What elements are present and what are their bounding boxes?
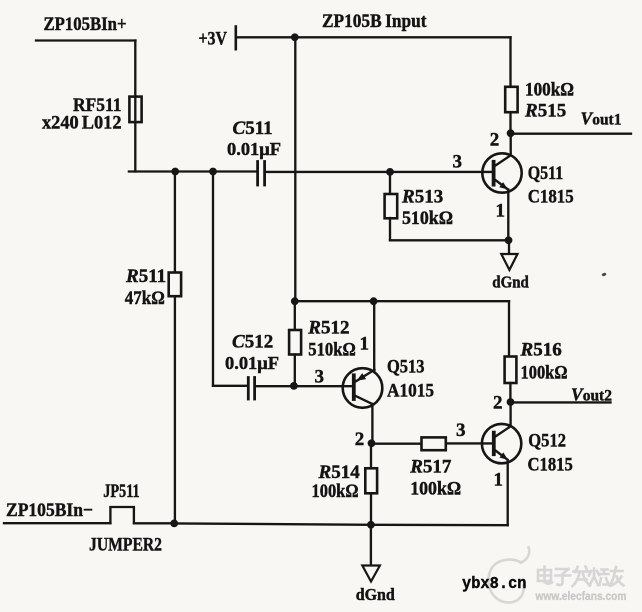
wire R517 to Q512 base [446, 442, 493, 444]
transistor Q512 base bar [492, 433, 496, 455]
wire Q511 emitter lead [507, 190, 509, 241]
transistor Q512 emitter arrow [500, 452, 508, 459]
svg-text:Vout1: Vout1 [581, 109, 622, 129]
transistor Q513 emitter diagonal [354, 370, 374, 383]
wire ZP105BIn+ vertical into RF511 [134, 41, 136, 172]
svg-text:Q513: Q513 [387, 356, 425, 377]
resistor R511 bottom lead [174, 296, 176, 523]
wire R516 bottom lead [509, 383, 511, 402]
transistor Q511 base bar [492, 162, 496, 185]
svg-text:C1815: C1815 [528, 454, 573, 475]
wire dGnd1 stub [508, 240, 510, 254]
wire C512 left lead [213, 385, 247, 387]
junction dot bottom rail R514 [367, 521, 375, 529]
wire node2 to R517 [372, 443, 422, 445]
wire Q512 emitter lead [507, 460, 509, 525]
wire dGnd2 stub [370, 525, 372, 566]
svg-text:ZP105BIn+: ZP105BIn+ [44, 14, 127, 35]
svg-text:dGnd: dGnd [356, 585, 396, 604]
svg-text:0.01μF: 0.01μF [225, 353, 279, 373]
svg-text:Vout2: Vout2 [571, 385, 612, 405]
svg-text:2: 2 [355, 429, 365, 450]
svg-text:Q511: Q511 [528, 163, 564, 184]
svg-text:R511: R511 [125, 266, 166, 287]
svg-text:R516: R516 [520, 339, 562, 360]
svg-text:ZP105BIn−: ZP105BIn− [6, 500, 93, 521]
svg-text:JUMPER2: JUMPER2 [89, 534, 162, 555]
transistor Q511 collector diagonal [494, 155, 511, 166]
svg-text:100kΩ: 100kΩ [312, 481, 359, 502]
svg-text:ybx8.cn: ybx8.cn [462, 574, 527, 593]
svg-text:0.01μF: 0.01μF [227, 139, 281, 159]
svg-text:C512: C512 [232, 331, 273, 352]
svg-text:47kΩ: 47kΩ [125, 288, 165, 309]
wire signal rail left segment [129, 170, 256, 172]
wire rail301 [295, 300, 509, 302]
svg-text:100kΩ: 100kΩ [525, 79, 574, 100]
wire R514 bottom lead [370, 493, 372, 525]
transistor Q512 collector diagonal [494, 426, 510, 437]
wire C512 to Q513 base [256, 385, 353, 387]
svg-text:C511: C511 [233, 118, 273, 139]
wire ZP105BIn- lead [4, 522, 110, 524]
junction dot emitter node Q511 [505, 236, 513, 244]
wire Q513 emitter lead [373, 301, 375, 370]
svg-text:R513: R513 [401, 187, 443, 208]
junction dot Vout2 node [507, 398, 515, 406]
watermark chinese char 4 [589, 569, 609, 586]
svg-text:2: 2 [493, 392, 503, 413]
svg-text:JP511: JP511 [103, 481, 140, 502]
wire +3V rail [237, 36, 511, 38]
junction dot rail301 Q513emitter [370, 297, 378, 305]
jumper JP511 bump [110, 507, 133, 523]
power +3V bar [235, 27, 238, 50]
svg-text:R514: R514 [318, 462, 361, 483]
wire bottom rail right segment [371, 524, 508, 527]
svg-text:1: 1 [496, 200, 506, 221]
svg-text:2: 2 [490, 130, 500, 151]
ground dGnd1 triangle [501, 254, 517, 270]
wire Vout1 [511, 133, 631, 135]
transistor Q513 circle [343, 368, 383, 408]
junction dot 3V branch [291, 33, 299, 41]
svg-text:510kΩ: 510kΩ [308, 339, 356, 360]
ground dGnd2 triangle [362, 566, 380, 582]
junction dot node R511 top [171, 168, 179, 176]
resistor R516 [505, 357, 517, 384]
watermark chinese char 1 [538, 567, 552, 584]
transistor Q512 emitter diagonal [494, 450, 507, 460]
wire Vout2 [511, 401, 611, 403]
watermark swoosh logo [488, 560, 523, 603]
resistor R512 [289, 330, 301, 355]
transistor Q511 emitter arrow [499, 182, 508, 189]
wire R513 to emitter node [390, 239, 509, 241]
svg-text:ZP105B Input: ZP105B Input [322, 11, 427, 32]
wire C512 branch vertical [212, 172, 214, 386]
junction dot rail301 left [291, 297, 299, 305]
wire R514 top lead [370, 443, 372, 468]
junction dot bottom rail R511 [170, 520, 178, 528]
svg-text:R517: R517 [409, 457, 452, 478]
svg-text:R515: R515 [524, 100, 566, 121]
resistor R517 [422, 437, 446, 450]
resistor R515 [505, 87, 517, 112]
transistor Q513 emitter arrow [357, 373, 367, 381]
svg-text:1: 1 [360, 333, 370, 354]
wire bottom rail mid segment [174, 523, 371, 524]
capacitor C512 left plate [247, 378, 250, 400]
junction dot Vout1 node [507, 129, 515, 137]
capacitor C512 right plate [253, 378, 256, 400]
svg-text:100kΩ: 100kΩ [410, 478, 461, 499]
wire R512 bottom lead [294, 355, 296, 386]
svg-text:dGnd: dGnd [492, 273, 529, 292]
svg-text:3: 3 [453, 151, 463, 172]
watermark chinese char 2 [556, 569, 571, 585]
wire R513 top lead [389, 172, 391, 195]
wire R516 top lead [508, 301, 510, 356]
transistor Q512 circle [482, 424, 521, 463]
capacitor C511 right plate [263, 162, 266, 186]
transistor Q511 circle [482, 153, 521, 192]
wire R515 bottom lead [509, 113, 511, 134]
junction dot Q513 collector node [368, 439, 376, 447]
transistor Q511 emitter diagonal [494, 179, 508, 189]
watermark chinese char 3 [573, 567, 591, 587]
svg-text:3: 3 [315, 366, 325, 387]
svg-text:1: 1 [494, 469, 504, 490]
transistor Q513 collector diagonal [354, 395, 372, 404]
wire ZP105BIn+ horizontal [36, 39, 136, 41]
wire R513 bottom lead [389, 218, 391, 240]
junction dot Q513 base node [290, 382, 298, 390]
svg-text:100kΩ: 100kΩ [521, 362, 568, 383]
wire 3V vertical branch [294, 37, 296, 301]
speck artifact [601, 272, 606, 276]
junction dot R513 top [386, 168, 394, 176]
svg-text:3: 3 [456, 420, 466, 441]
wire signal rail right segment to Q511 base [266, 171, 493, 173]
resistor R514 [365, 468, 377, 493]
resistor R513 [385, 194, 398, 218]
svg-text:Q512: Q512 [528, 431, 566, 452]
watermark swoosh tail [521, 548, 529, 563]
wire bottom rail left of dot [134, 522, 174, 524]
svg-text:510kΩ: 510kΩ [402, 208, 453, 229]
junction dot node C512 branch [209, 168, 217, 176]
wire Q513 collector lead [371, 404, 373, 443]
svg-text:C1815: C1815 [528, 187, 574, 208]
resistor RF511 [129, 97, 141, 123]
svg-text:A1015: A1015 [387, 380, 434, 401]
capacitor C511 left plate [256, 162, 259, 186]
wire Q512 collector lead [509, 402, 511, 426]
wire R515 top lead [509, 37, 511, 86]
wire Q511 collector lead [510, 134, 512, 156]
svg-text:R512: R512 [307, 317, 349, 338]
resistor R511 [169, 273, 181, 297]
resistor R511 vertical top lead [174, 172, 176, 273]
svg-text:www.elecfans.com: www.elecfans.com [535, 589, 627, 603]
wire R512 top lead [294, 301, 296, 330]
watermark chinese char 5 [610, 567, 624, 586]
svg-text:x240 L012: x240 L012 [42, 113, 122, 134]
transistor Q513 base bar [352, 375, 356, 399]
svg-text:+3V: +3V [199, 28, 228, 49]
